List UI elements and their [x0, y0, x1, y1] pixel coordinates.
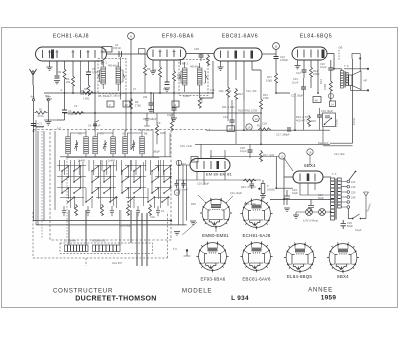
svg-text:0,1μF: 0,1μF	[240, 149, 247, 153]
outer dashed enclosure bottom	[33, 212, 168, 266]
svg-text:BOBINAGE: BOBINAGE	[92, 239, 106, 243]
svg-text:C21, 2kpF: C21, 2kpF	[230, 191, 242, 195]
svg-text:Vers B P: Vers B P	[112, 261, 122, 265]
switch contact grid row 2	[61, 176, 171, 183]
dot bus	[159, 92, 161, 94]
T.U dot	[186, 249, 188, 251]
output transformer T.S	[340, 71, 348, 89]
svg-text:PU int: PU int	[352, 118, 356, 125]
wire V2 pin5 to MF2	[180, 60, 182, 65]
svg-text:6BX4: 6BX4	[304, 163, 316, 168]
svg-text:ECH81-6AJ8: ECH81-6AJ8	[53, 34, 89, 40]
bus y144.6	[195, 143, 330, 145]
wire V1 pin6b	[80, 61, 82, 93]
circled 5	[176, 160, 182, 166]
tube V3 internal electrodes	[221, 51, 254, 59]
svg-text:R11, 1 MΩ: R11, 1 MΩ	[222, 105, 234, 109]
svg-text:180Ω: 180Ω	[313, 72, 319, 76]
wire N bus down	[130, 54, 132, 150]
socket EBC81-6AV6	[240, 241, 272, 272]
svg-text:R4: R4	[84, 87, 88, 91]
wire V4 anode up right	[327, 54, 334, 69]
wire V2 pin2	[159, 60, 161, 93]
resistor R21 horizontal	[243, 179, 256, 182]
wire left y126	[33, 126, 44, 128]
box 11	[172, 101, 179, 107]
socket EM80 pointer wires	[198, 195, 233, 232]
bus y113 left	[64, 112, 154, 114]
svg-text:130: 130	[351, 185, 356, 189]
resistor R12	[235, 88, 238, 100]
tuning coil L3	[93, 137, 98, 154]
wire T.S top	[334, 69, 342, 71]
bus y220.6	[33, 220, 170, 222]
svg-text:R16, A.T.R: R16, A.T.R	[296, 115, 309, 119]
svg-text:C16, 5kpF: C16, 5kpF	[321, 109, 333, 113]
svg-text:L 934: L 934	[231, 295, 249, 302]
ground mid	[174, 232, 180, 235]
resistor R14b	[329, 80, 332, 92]
svg-text:50μF: 50μF	[318, 196, 324, 200]
wire V1 pin8 to MF1 top	[101, 61, 103, 65]
svg-text:100Ω: 100Ω	[323, 84, 327, 90]
svg-text:22k: 22k	[143, 95, 148, 99]
wire x352.5 elbow	[352, 115, 354, 143]
MF2 primary coil	[183, 68, 188, 85]
svg-text:MF 2: MF 2	[182, 62, 188, 66]
svg-text:2x490: 2x490	[108, 159, 116, 163]
svg-text:R17: R17	[267, 75, 272, 79]
wire MF2 secondary to V3	[200, 61, 213, 98]
bus y113	[154, 112, 263, 114]
MF1 internal wires	[100, 61, 124, 91]
capacitor C10	[274, 57, 279, 59]
wire V1 pin3 down	[56, 61, 58, 75]
wire N circle down	[130, 40, 132, 55]
svg-text:T. A: T. A	[332, 172, 337, 176]
resistor R4b on bus	[72, 112, 85, 115]
svg-text:OC: OC	[78, 132, 82, 136]
resistor R3	[72, 75, 75, 87]
lamp wires	[296, 211, 331, 213]
wire V3 pin2 resistor R11	[227, 61, 229, 86]
wire V2 pin4	[173, 60, 175, 93]
resistor R15 vertical	[308, 115, 311, 127]
svg-text:EL84-6BQ5: EL84-6BQ5	[287, 274, 313, 279]
svg-text:R20: R20	[191, 202, 196, 206]
svg-text:R5, 56kΩ: R5, 56kΩ	[98, 94, 109, 98]
svg-text:0,1μF: 0,1μF	[355, 228, 362, 232]
pilot lamps	[306, 209, 313, 216]
wire V3 pin1	[220, 61, 222, 67]
bottom parts row caps	[62, 206, 160, 216]
wire V3 pin3	[235, 61, 237, 80]
svg-text:R7: R7	[153, 68, 157, 72]
svg-text:2,2M: 2,2M	[46, 97, 52, 101]
svg-text:T.U: T.U	[173, 247, 177, 251]
box C4 trimmer	[139, 49, 146, 54]
circled 17	[328, 93, 333, 98]
EM80 coupling caps	[175, 180, 186, 188]
capacitor C6 gang	[93, 120, 99, 129]
wire x261 down	[260, 110, 262, 145]
circled 18	[307, 149, 313, 155]
wire terre	[47, 101, 49, 122]
svg-text:1MΩ: 1MΩ	[160, 131, 166, 135]
circled 7	[174, 190, 180, 196]
ground C9	[171, 118, 177, 121]
svg-text:C11: C11	[210, 88, 215, 92]
wire V1 pin5	[72, 61, 74, 93]
middle vertical wires	[179, 160, 187, 225]
speaker wires	[350, 86, 368, 91]
coil connection frames	[68, 130, 142, 157]
ground C2	[54, 81, 60, 84]
tube 6BX4 electrodes	[300, 174, 315, 182]
svg-text:C12, 47k: C12, 47k	[246, 89, 257, 93]
svg-text:R1: R1	[39, 107, 43, 111]
bus y199 B+	[270, 199, 334, 201]
dashed enclosure tuning unit	[50, 130, 171, 241]
box 13	[227, 126, 235, 132]
svg-text:MODELE: MODELE	[182, 288, 212, 295]
wire V1 pin7 to MF1	[94, 61, 96, 131]
svg-text:0,5μF: 0,5μF	[167, 113, 174, 117]
wire x236 lower	[235, 100, 237, 145]
capacitor C3	[62, 110, 67, 113]
tube V2 internal electrodes	[153, 50, 181, 58]
svg-text:474 k: 474 k	[38, 114, 45, 118]
svg-text:C19, 50pF: C19, 50pF	[197, 182, 210, 186]
dot right	[367, 68, 369, 70]
wire B circle down	[275, 50, 277, 57]
wire antenna down	[33, 85, 35, 221]
capacitor C13	[230, 120, 235, 122]
svg-text:BE: BE	[144, 132, 148, 136]
svg-text:C7: C7	[133, 87, 137, 91]
wire V4 pin1	[297, 60, 299, 66]
wire V2 pin1	[152, 60, 154, 71]
box 10	[123, 101, 130, 107]
resistor R6 vertical mid	[130, 98, 133, 110]
svg-text:R18, 47kΩ 1/2W: R18, 47kΩ 1/2W	[238, 109, 258, 113]
wire x330.8	[330, 60, 332, 101]
resistor R5	[87, 84, 90, 96]
extra verticals under V3	[228, 98, 244, 145]
svg-text:C2: C2	[74, 104, 78, 108]
wire V3 pin5	[252, 61, 261, 98]
circled node B	[273, 43, 280, 50]
svg-text:0,1μF: 0,1μF	[183, 94, 190, 98]
svg-text:10kΩ: 10kΩ	[266, 79, 272, 83]
svg-text:EBC81-6AV6: EBC81-6AV6	[242, 277, 271, 282]
switch contact grid row 1	[61, 165, 171, 172]
wire V3 pin4 down long	[243, 61, 245, 100]
svg-text:16μF: 16μF	[292, 191, 298, 195]
heater elbow wire	[276, 157, 293, 189]
capacitor C16	[317, 115, 322, 117]
wire EM80 pins	[179, 165, 226, 185]
wire R6	[153, 93, 155, 113]
svg-text:1,2: 1,2	[57, 126, 61, 130]
choke drop wires	[68, 210, 131, 245]
tube V4 envelope EL84	[292, 47, 327, 60]
capacitor C4 series	[119, 51, 122, 57]
wire bus drop left	[35, 120, 37, 225]
box A8	[313, 97, 321, 103]
svg-text:PU ext: PU ext	[334, 119, 338, 127]
wire 6BX4 cathode left	[284, 158, 293, 205]
wire 6BX4 pins down	[300, 183, 330, 195]
vertical bus x352 top	[352, 59, 354, 115]
tube EM80 electrodes	[197, 161, 225, 169]
wire V2 pin3	[166, 60, 168, 82]
svg-text:P: P	[267, 184, 269, 188]
svg-text:PO: PO	[100, 132, 104, 136]
box 14	[330, 101, 336, 107]
tube EM80 envelope	[190, 159, 230, 172]
tuning coil L2	[84, 137, 89, 154]
tuning coil L4	[111, 137, 116, 154]
IF transformer MF2 box	[179, 60, 208, 96]
svg-text:0,5MΩ: 0,5MΩ	[267, 188, 275, 192]
ground V3 pin1	[218, 67, 224, 70]
capacitor C15	[328, 68, 333, 70]
ground V4 pin1	[295, 66, 301, 69]
circled 12	[253, 115, 259, 121]
switch contact grid row 3	[61, 187, 171, 194]
wire x145	[144, 54, 146, 93]
capacitor C21b	[250, 180, 255, 189]
wire C3 down	[57, 93, 65, 120]
svg-text:MF 1: MF 1	[101, 61, 107, 65]
vers BP wires	[137, 213, 148, 266]
svg-text:T. S: T. S	[344, 64, 349, 68]
MF1 secondary coil	[116, 67, 121, 84]
svg-text:C13: C13	[223, 115, 228, 119]
tube V3 envelope EBC81	[214, 48, 262, 61]
terminal Terre	[47, 99, 49, 101]
socket EF93-6BA6	[196, 241, 228, 272]
socket 6BX4	[327, 242, 359, 273]
wire PU drop	[322, 127, 324, 145]
wire 13/18 leads	[284, 155, 310, 171]
wire C10 down	[276, 59, 290, 94]
bus end pair	[323, 143, 353, 146]
svg-text:R2: R2	[58, 70, 62, 74]
bottom parts row resistors	[75, 204, 78, 216]
secteur lead	[364, 192, 369, 219]
svg-text:0,05μF: 0,05μF	[280, 58, 289, 62]
svg-text:C28: C28	[194, 47, 199, 51]
svg-text:C18, 118pF: C18, 118pF	[143, 117, 157, 121]
pre-EM80 parts	[144, 113, 172, 144]
wire left rail into switch	[38, 131, 55, 225]
TA taps	[341, 180, 349, 208]
EM80 feed wires	[201, 144, 225, 158]
svg-text:DUCRETET-THOMSON: DUCRETET-THOMSON	[75, 296, 156, 303]
svg-text:R22: R22	[181, 162, 186, 166]
svg-text:50μF: 50μF	[347, 224, 353, 228]
wire D6	[338, 50, 340, 60]
circled 13	[279, 153, 285, 159]
svg-text:R6: R6	[135, 100, 139, 104]
svg-text:40Ω-4 T.C: 40Ω-4 T.C	[296, 119, 308, 123]
svg-text:C17, 56pF: C17, 56pF	[291, 94, 304, 98]
switch bank long verticals	[71, 160, 161, 208]
capacitor C5	[86, 72, 91, 75]
resistor R9b	[171, 119, 174, 131]
switch bank horizontal links	[57, 166, 172, 198]
trimmer T1	[75, 140, 136, 151]
svg-text:C12: C12	[296, 71, 301, 75]
wire V1 pin6	[88, 61, 90, 84]
svg-text:0,1μF: 0,1μF	[68, 112, 75, 116]
wire V3 anode to B	[262, 53, 276, 55]
tuning coil L1	[66, 137, 71, 154]
wire 6BX4 right to TA	[323, 176, 331, 178]
wire mid column x126	[125, 93, 127, 132]
svg-text:R12: R12	[238, 92, 243, 96]
circled 13 lead line	[210, 156, 279, 158]
svg-text:400mF: 400mF	[36, 125, 44, 129]
wire V4 pin3 down	[317, 60, 319, 93]
ground under V1 pin2	[47, 67, 53, 70]
svg-text:0,1: 0,1	[161, 209, 165, 213]
PU input box	[323, 113, 336, 127]
switch contact grid row 4	[67, 196, 169, 203]
wire tweeter top	[344, 53, 368, 71]
svg-text:D6: D6	[339, 46, 343, 50]
box 17	[191, 157, 198, 163]
capacitor C2	[55, 76, 60, 78]
MF1 primary coil	[101, 67, 106, 84]
capacitor C18b	[248, 150, 253, 152]
mains switch	[348, 209, 366, 220]
resistor R17	[260, 150, 263, 162]
svg-text:C22: C22	[150, 215, 155, 219]
svg-text:A: A	[61, 88, 63, 92]
svg-text:N: N	[130, 35, 132, 39]
capacitor C7	[149, 103, 154, 105]
potentiometer P	[258, 180, 265, 196]
svg-text:CONSTRUCTEUR: CONSTRUCTEUR	[53, 288, 113, 295]
svg-text:EF93-6BA6: EF93-6BA6	[162, 34, 194, 40]
svg-text:Réel 2μF: Réel 2μF	[318, 141, 329, 145]
svg-text:6,3V 0,4Amp: 6,3V 0,4Amp	[303, 219, 319, 223]
wire C7	[150, 93, 152, 110]
selector lever	[349, 172, 355, 180]
svg-text:C9: C9	[157, 121, 161, 125]
resistor R14 under V4	[310, 66, 313, 78]
lamp ground	[293, 215, 299, 218]
extra tiny labels row	[150, 191, 256, 219]
svg-text:EL84-6BQ5: EL84-6BQ5	[300, 34, 333, 40]
svg-text:22k: 22k	[66, 80, 71, 84]
bus y224.9	[36, 224, 187, 226]
wire x57 left	[56, 61, 58, 75]
AVC bus y93	[44, 92, 213, 94]
svg-text:1959: 1959	[321, 295, 337, 302]
dot C3	[64, 92, 66, 94]
svg-text:ECH81-6AJ8: ECH81-6AJ8	[242, 233, 270, 238]
resistor R7	[159, 66, 162, 78]
scattered value labels	[46, 87, 362, 243]
capacitor C13b under V4	[301, 87, 306, 89]
svg-text:1,2 GAMA: 1,2 GAMA	[64, 239, 76, 243]
coil bottom rail	[66, 157, 159, 159]
coil bottom rail	[60, 156, 170, 158]
svg-text:HP: HP	[364, 79, 368, 83]
ground terre	[45, 122, 51, 125]
resistor R16 horizontal	[258, 128, 271, 131]
svg-text:C6, 180 pF: C6, 180 pF	[109, 94, 122, 98]
box 8	[107, 101, 114, 107]
box 20	[102, 47, 112, 53]
right tuning verticals	[153, 130, 170, 157]
svg-text:EM 80-EM 81: EM 80-EM 81	[206, 172, 232, 177]
resistor R1 horizontal	[35, 111, 48, 114]
capacitor C25	[341, 220, 347, 229]
svg-text:150 pF: 150 pF	[113, 46, 121, 50]
capacitor C9 mid	[172, 108, 177, 110]
power transformer T.A	[331, 178, 342, 220]
trimmer arrows MF1	[98, 74, 126, 78]
dashed inner vertical	[42, 131, 67, 238]
choke dashed box	[60, 243, 153, 254]
bus y130	[206, 129, 330, 131]
tube V1 internal electrodes	[43, 50, 104, 59]
wire x295 vertical	[294, 93, 296, 131]
svg-text:B: B	[275, 45, 277, 49]
wire V1 to V2 grid	[107, 53, 148, 55]
svg-text:+C1: +C1	[37, 122, 42, 126]
svg-text:R11, 1 MΩ: R11, 1 MΩ	[219, 89, 231, 93]
detector link V2-V3	[186, 53, 214, 55]
tuning coil L6	[140, 137, 145, 154]
svg-text:EBC81-6AV6: EBC81-6AV6	[222, 34, 258, 40]
tube V1 envelope ECH81	[36, 47, 107, 61]
terminal Ant	[32, 99, 34, 101]
svg-text:EF93-6BA6: EF93-6BA6	[201, 277, 226, 282]
svg-text:A8: A8	[315, 98, 319, 102]
svg-text:110: 110	[351, 180, 356, 184]
svg-text:180pF: 180pF	[153, 150, 161, 154]
svg-text:R9: R9	[147, 67, 151, 71]
ground filter	[284, 208, 290, 211]
svg-text:6BX4: 6BX4	[337, 274, 349, 279]
svg-text:Bobinage: Bobinage	[120, 224, 132, 228]
ground pot	[260, 196, 266, 199]
svg-text:GO: GO	[122, 132, 126, 136]
choke B1	[65, 245, 89, 252]
label C19	[176, 179, 261, 181]
wire x244 extend	[243, 100, 245, 131]
socket EL84-6BQ5	[284, 242, 316, 273]
capacitor C28 detector	[199, 55, 204, 57]
svg-text:240: 240	[351, 196, 356, 200]
svg-text:C17, 189pF: C17, 189pF	[276, 133, 290, 137]
circled node N	[128, 33, 135, 40]
svg-text:17kΩ: 17kΩ	[135, 104, 141, 108]
wire mid column x120.5	[120, 57, 122, 100]
MF2 internal wires	[181, 62, 206, 92]
svg-text:C8: C8	[163, 87, 167, 91]
svg-text:C16, mmF: C16, mmF	[180, 144, 193, 148]
svg-text:1k pF: 1k pF	[292, 81, 299, 85]
ground V2 pin1	[150, 71, 156, 74]
capacitor C8	[165, 82, 170, 85]
